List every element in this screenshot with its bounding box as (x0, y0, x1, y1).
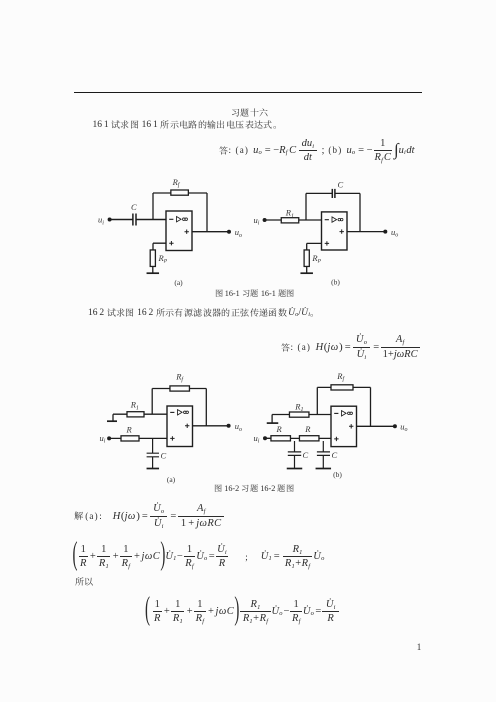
svg-text:Rf: Rf (175, 371, 184, 383)
svg-text:ui: ui (98, 215, 104, 227)
svg-text:ui: ui (254, 433, 260, 445)
svg-text:uo: uo (235, 421, 242, 433)
svg-text:C: C (131, 202, 137, 212)
svg-text:R1: R1 (130, 400, 139, 412)
svg-text:RP: RP (311, 253, 321, 265)
svg-text:uo: uo (400, 421, 407, 433)
svg-text:(b): (b) (333, 470, 342, 479)
svg-text:R: R (126, 425, 133, 435)
svg-text:(a): (a) (174, 278, 183, 287)
svg-text:R: R (304, 424, 311, 434)
svg-text:Rf: Rf (336, 371, 345, 383)
svg-text:ui: ui (254, 215, 260, 227)
svg-text:(a): (a) (167, 475, 176, 484)
svg-text:uo: uo (235, 227, 242, 239)
svg-text:(b): (b) (331, 277, 340, 286)
svg-text:C: C (338, 180, 344, 190)
svg-text:ui: ui (100, 433, 106, 445)
svg-text:Rf: Rf (172, 177, 181, 189)
svg-text:C: C (332, 450, 338, 460)
svg-text:C: C (303, 450, 309, 460)
svg-text:RP: RP (158, 253, 168, 265)
svg-text:C: C (161, 451, 167, 461)
svg-text:uo: uo (391, 227, 398, 239)
svg-text:R: R (276, 424, 283, 434)
